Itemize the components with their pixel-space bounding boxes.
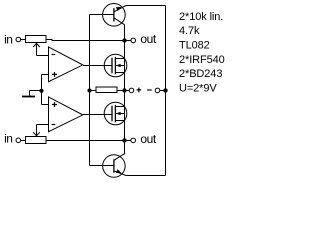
svg-text:2*10k lin.: 2*10k lin. [179,11,223,23]
svg-text:2*BD243: 2*BD243 [179,68,222,80]
svg-text:U=2*9V: U=2*9V [179,83,217,95]
svg-text:4.7k: 4.7k [179,25,200,37]
svg-text:out: out [140,32,156,46]
svg-text:in: in [4,132,12,146]
svg-text:TL082: TL082 [179,40,210,52]
svg-text:2*IRF540: 2*IRF540 [179,54,225,66]
svg-text:out: out [140,132,156,146]
svg-text:in: in [4,32,12,46]
